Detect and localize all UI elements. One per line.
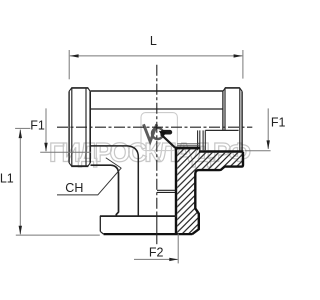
dimension L line xyxy=(70,55,243,57)
F1 left extension line xyxy=(40,151,91,153)
svg-text:L1: L1 xyxy=(0,172,14,186)
svg-text:F2: F2 xyxy=(149,246,164,260)
left flange outer right xyxy=(89,91,91,163)
hex body chamfer diagonal xyxy=(106,158,121,168)
leg bore wall thick xyxy=(175,147,177,233)
dimension L extension lines xyxy=(68,50,70,79)
bottom nut left chamfer xyxy=(100,231,103,234)
watermark text GIDROSKLAD.RF xyxy=(49,138,251,168)
watermark logo box xyxy=(141,113,177,151)
F1 right extension line xyxy=(245,150,271,152)
bore cone chamfer / logo arrow shaft xyxy=(161,134,175,147)
left flange inner right xyxy=(85,88,87,166)
hex top edge line xyxy=(91,108,223,110)
L1 bottom extension line xyxy=(16,234,100,236)
right nut chamfers xyxy=(223,88,242,91)
left flange chamfers xyxy=(69,88,90,166)
horizontal centerline xyxy=(57,126,252,128)
svg-text:F1: F1 xyxy=(30,118,45,132)
svg-text:CH: CH xyxy=(65,181,83,195)
F2 extension line xyxy=(177,234,179,264)
tube bottom line with fillet into leg left face xyxy=(91,165,119,216)
dimension L arrowheads xyxy=(70,54,79,57)
watermark logo arrowhead xyxy=(159,131,166,138)
watermark logo bar xyxy=(161,130,172,135)
svg-text:F1: F1 xyxy=(271,115,286,129)
L1 top extension dash xyxy=(15,127,30,129)
right nut inner right xyxy=(239,88,241,150)
svg-text:L: L xyxy=(150,34,157,48)
left flange top xyxy=(71,87,88,89)
dimension F1 right line xyxy=(267,108,269,148)
arm bore thread thin lines xyxy=(177,143,199,145)
hatched section fill xyxy=(177,149,242,233)
dimension F1 left line xyxy=(45,108,47,151)
left flange bottom xyxy=(71,165,88,167)
bottom nut top line xyxy=(100,215,177,217)
bottom nut left edge xyxy=(99,216,101,231)
vertical centerline xyxy=(156,65,158,211)
right nut outer right xyxy=(241,91,243,150)
watermark logo G circle xyxy=(152,128,163,139)
right nut outer left xyxy=(222,91,224,130)
shoulder thick line xyxy=(199,150,244,153)
hex bottom edge line with curve into leg edge xyxy=(91,146,139,216)
tube top line xyxy=(91,90,223,92)
leg bore thread end lines xyxy=(157,189,175,191)
right port inner step lines xyxy=(197,130,199,150)
arm bore bottom thick line xyxy=(175,147,201,150)
right nut top xyxy=(225,87,240,89)
left flange inner left xyxy=(71,88,73,166)
left flange outer left xyxy=(68,91,70,163)
dimension F2 line xyxy=(134,258,178,260)
section outer boundary thick xyxy=(192,152,243,234)
watermark logo V xyxy=(144,124,157,141)
right nut inner left xyxy=(224,88,226,130)
bottom nut bottom thick line xyxy=(104,233,193,235)
dimension L1 line xyxy=(19,130,21,235)
